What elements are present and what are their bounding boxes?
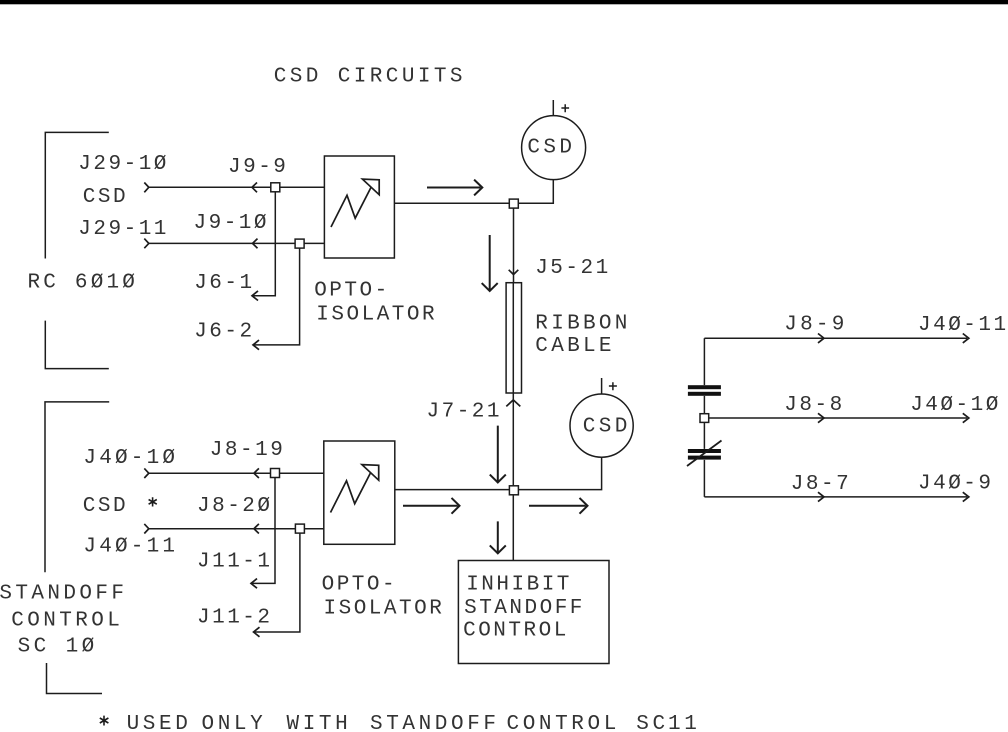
- svg-text:J9-1Ø: J9-1Ø: [194, 212, 270, 235]
- svg-text:ISOLATOR: ISOLATOR: [316, 304, 437, 327]
- svg-text:OPTO-: OPTO-: [314, 280, 390, 303]
- svg-text:J8-7: J8-7: [791, 473, 851, 496]
- svg-text:J4Ø-1Ø: J4Ø-1Ø: [83, 447, 178, 470]
- svg-text:OPTO-: OPTO-: [322, 573, 398, 596]
- svg-text:SC 1Ø: SC 1Ø: [18, 635, 98, 658]
- svg-text:WITH: WITH: [287, 713, 352, 732]
- svg-text:CONTROL: CONTROL: [11, 610, 123, 633]
- svg-text:CSD: CSD: [527, 137, 575, 160]
- svg-text:CONTROL: CONTROL: [463, 620, 569, 643]
- svg-text:CSD: CSD: [583, 416, 631, 439]
- svg-text:J4Ø-1Ø: J4Ø-1Ø: [910, 394, 1001, 417]
- svg-text:11: 11: [668, 713, 700, 732]
- svg-text:CSD: CSD: [83, 495, 128, 518]
- svg-text:J8-9: J8-9: [784, 314, 847, 337]
- svg-text:J4Ø-9: J4Ø-9: [918, 473, 994, 496]
- svg-text:CABLE: CABLE: [535, 335, 615, 358]
- svg-text:J11-1: J11-1: [197, 551, 273, 574]
- svg-text:SC: SC: [636, 713, 668, 732]
- svg-text:RIBBON: RIBBON: [535, 312, 630, 335]
- svg-text:J4Ø-11: J4Ø-11: [83, 536, 178, 559]
- svg-text:INHIBIT: INHIBIT: [466, 574, 572, 597]
- svg-text:J9-9: J9-9: [228, 156, 288, 179]
- svg-text:J7-21: J7-21: [427, 401, 503, 424]
- svg-text:ISOLATOR: ISOLATOR: [324, 597, 445, 620]
- svg-text:ONLY: ONLY: [202, 713, 267, 732]
- svg-text:J6-2: J6-2: [194, 321, 254, 344]
- svg-text:CSD CIRCUITS: CSD CIRCUITS: [274, 65, 466, 88]
- svg-text:J8-19: J8-19: [210, 439, 286, 462]
- svg-text:J29-11: J29-11: [78, 218, 169, 241]
- svg-text:J8-8: J8-8: [784, 394, 844, 417]
- svg-text:USED: USED: [127, 713, 192, 732]
- svg-text:RC 6Ø1Ø: RC 6Ø1Ø: [28, 272, 139, 295]
- svg-text:CONTROL: CONTROL: [507, 713, 620, 732]
- svg-text:STANDOFF: STANDOFF: [0, 583, 127, 606]
- svg-text:STANDOFF: STANDOFF: [464, 597, 585, 620]
- svg-text:CSD: CSD: [83, 186, 128, 209]
- svg-text:J5-21: J5-21: [535, 257, 611, 280]
- svg-text:STANDOFF: STANDOFF: [370, 713, 500, 732]
- svg-text:J6-1: J6-1: [194, 272, 254, 295]
- svg-text:J8-2Ø: J8-2Ø: [197, 495, 273, 518]
- svg-text:J11-2: J11-2: [197, 607, 273, 630]
- svg-text:J29-1Ø: J29-1Ø: [78, 153, 169, 176]
